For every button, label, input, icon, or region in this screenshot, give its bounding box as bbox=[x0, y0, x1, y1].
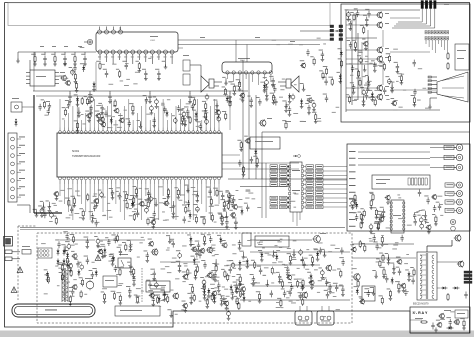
X-RAY parts bbox=[410, 310, 459, 332]
value label (band 2) bbox=[136, 295, 141, 298]
value label (band 14) bbox=[148, 244, 151, 247]
value label (band 2) bbox=[272, 261, 276, 264]
value label (band 13) bbox=[103, 214, 106, 217]
value label (band 1) bbox=[94, 193, 98, 196]
resistor R17 (AGC row) bbox=[71, 52, 77, 66]
wire bbox=[357, 33, 359, 100]
CRT heater wires bbox=[428, 98, 437, 109]
AV jack 6 bbox=[11, 178, 25, 182]
transistor V905 bbox=[376, 85, 389, 92]
value label (band 0) bbox=[186, 102, 191, 105]
wire bbox=[252, 285, 344, 287]
capacitor C171 (deflection area) bbox=[323, 278, 329, 287]
wire bbox=[390, 51, 430, 53]
capacitor C96 (sound trap) bbox=[306, 49, 309, 56]
CRT socket pin 8 bbox=[450, 219, 455, 224]
resistor R35 (below main IC) bbox=[79, 208, 85, 220]
solder pad bbox=[339, 29, 343, 32]
resistor R50 (below main IC) bbox=[133, 213, 135, 221]
wire bbox=[22, 106, 34, 108]
wire bbox=[382, 30, 384, 47]
value label (band 1) bbox=[119, 195, 122, 198]
board pin label 7 bbox=[349, 191, 356, 194]
resistor R52 (below main IC) bbox=[213, 188, 218, 197]
transistor V66 (south row) bbox=[223, 298, 229, 310]
pin wire bbox=[72, 184, 74, 220]
resistor R76 (CRT drive lower) bbox=[358, 212, 363, 221]
value label (band 2) bbox=[248, 264, 253, 267]
resistor R118 (deflection area) bbox=[271, 267, 273, 275]
value label (band 3) bbox=[350, 74, 353, 77]
capacitor C41 (above main IC) bbox=[98, 103, 104, 115]
wire bbox=[382, 62, 384, 85]
tuner pin 16 bbox=[170, 50, 174, 64]
resistor R71 (CRT drive left) bbox=[369, 199, 373, 210]
resistor R8 (CRT board right) bbox=[381, 62, 386, 71]
pin wire bbox=[111, 99, 113, 128]
value label (band 4) bbox=[416, 210, 419, 213]
resistor R4 (CRT board) bbox=[356, 78, 361, 87]
diode V69 (deflection area) bbox=[258, 250, 264, 262]
resistor R132 (primary gap) bbox=[116, 234, 118, 242]
resistor R92 (secondary side) bbox=[221, 269, 226, 278]
N301 pin 63 (bottom) bbox=[114, 177, 117, 184]
value label (band 1) bbox=[291, 200, 296, 203]
transistor V904 bbox=[376, 56, 389, 63]
N201 pin 21 (right) bbox=[301, 206, 303, 208]
capacitor C157 (deflection area) bbox=[339, 257, 345, 266]
CRT board inner border bbox=[355, 13, 357, 40]
pin wire bbox=[214, 99, 216, 128]
N301 pin 66 (bottom) bbox=[102, 177, 105, 184]
capacitor C148 (bottom row) bbox=[161, 290, 167, 302]
transistor V65 (bottom row) bbox=[148, 290, 154, 298]
value label (band 2) bbox=[251, 282, 256, 285]
resistor R38 (below main IC) bbox=[182, 205, 187, 214]
diode V74 (east output) bbox=[354, 286, 359, 295]
capacitor C121 (primary side) bbox=[127, 262, 133, 274]
capacitor C75 (below main IC) bbox=[206, 187, 212, 196]
diode V85 (secondary gap) bbox=[240, 294, 245, 303]
transistor V14 (above main IC) bbox=[215, 110, 221, 119]
N301 pin 24 (top) bbox=[157, 128, 160, 134]
pin wire bbox=[197, 184, 199, 196]
capacitor C19 (tuner pins) bbox=[103, 69, 108, 78]
resistor R57 (audio out) bbox=[231, 84, 237, 96]
svg-text:BSC25-N0379: BSC25-N0379 bbox=[413, 303, 429, 306]
link label row R2 bbox=[304, 169, 347, 172]
transistor V21 (below main IC) bbox=[138, 199, 144, 207]
N301 pin 19 (top) bbox=[136, 128, 139, 134]
value label (band 2) bbox=[129, 243, 133, 246]
capacitor C50 (above main IC) bbox=[197, 121, 203, 130]
diode V60 (secondary side) bbox=[230, 285, 233, 292]
wire to ground GND30 (south row) bbox=[167, 309, 173, 317]
degauss coil loop bbox=[12, 304, 95, 317]
value label (band 14) bbox=[327, 288, 331, 291]
value label (band 2) bbox=[209, 247, 213, 250]
resistor R18 (IF amp) bbox=[72, 72, 78, 84]
resistor R90 (secondary side) bbox=[194, 264, 199, 273]
diode V63 (secondary side) bbox=[244, 257, 250, 269]
socket pad row 1 bbox=[425, 31, 449, 34]
transistor V4 (IF amp) bbox=[64, 78, 70, 86]
pin wire bbox=[209, 184, 211, 220]
capacitor C65 (below main IC) bbox=[134, 209, 140, 218]
N301 pin 23 (top) bbox=[153, 128, 156, 134]
pin wire bbox=[85, 113, 87, 128]
diode V57 (secondary side) bbox=[155, 295, 160, 304]
electrolytic capacitor C40 (above main IC) bbox=[172, 115, 178, 124]
transistor V50 (secondary side) bbox=[206, 273, 212, 279]
link label row R5 bbox=[304, 183, 347, 186]
resistor R72 (CRT drive left) bbox=[373, 207, 379, 219]
value label (band 1) bbox=[188, 220, 191, 223]
resistor R22 (above main IC) bbox=[114, 99, 116, 107]
resistor R43 (below main IC) bbox=[71, 196, 77, 208]
pin wire bbox=[175, 184, 177, 220]
transistor V12 (above main IC) bbox=[100, 122, 106, 128]
AV jack strip XS101 bbox=[8, 133, 17, 202]
value label (band 2) bbox=[139, 241, 142, 244]
wire to ground GND7 (above main IC) bbox=[213, 100, 219, 112]
link label row R7 bbox=[304, 192, 347, 195]
capacitor C194 (below IC east gap) bbox=[244, 203, 250, 212]
wire bbox=[33, 52, 35, 91]
value label (band 12) bbox=[288, 43, 293, 46]
resistor R56 (audio out) bbox=[222, 87, 227, 96]
wire to ground GND4 (CRT board right) bbox=[388, 81, 394, 93]
N301 pin 5 (top) bbox=[76, 128, 79, 134]
transistor V87 (below IC east gap) bbox=[229, 210, 235, 218]
transistor V29 (video path) bbox=[244, 136, 250, 144]
capacitor C133 (secondary side) bbox=[150, 269, 156, 281]
value label (band 2) bbox=[305, 264, 309, 267]
N601 pin 6 bbox=[257, 71, 260, 85]
value label (band 1) bbox=[49, 220, 53, 223]
value label (band 2) bbox=[136, 287, 141, 290]
pin wire bbox=[89, 184, 91, 220]
capacitor C73 (below main IC) bbox=[68, 205, 74, 214]
N301 pin 60 (bottom) bbox=[127, 177, 130, 184]
value label (band 2) bbox=[135, 296, 139, 299]
N301 pin 40 (bottom) bbox=[213, 177, 216, 184]
capacitor C58 (below main IC) bbox=[194, 191, 200, 203]
N301 pin 9 (top) bbox=[93, 128, 96, 134]
value label (band 2) bbox=[296, 299, 299, 302]
N601 pin 8 bbox=[269, 71, 272, 82]
value label (band 5) bbox=[395, 241, 399, 244]
resistor R120 (east output) bbox=[354, 279, 359, 288]
transistor V72 (deflection area) bbox=[308, 278, 314, 290]
CRT socket pin 1 bbox=[444, 144, 463, 151]
pin wire bbox=[171, 184, 173, 212]
wire bbox=[390, 17, 420, 19]
electrolytic capacitor C78 (below main IC) bbox=[50, 212, 54, 219]
pin wire bbox=[201, 184, 203, 204]
value label (band 1) bbox=[129, 207, 132, 210]
value label (band 13) bbox=[145, 199, 148, 202]
capacitor C1 (CRT board) bbox=[350, 82, 356, 94]
diode V46 (primary side) bbox=[77, 269, 80, 276]
resistor R12 (tuner pins) bbox=[96, 61, 101, 70]
value label (band 14) bbox=[75, 243, 78, 246]
capacitor C150 (deflection area) bbox=[319, 247, 322, 254]
capacitor C160 (deflection area) bbox=[300, 260, 306, 269]
svg-text:U101: U101 bbox=[150, 40, 156, 42]
capacitor C162 (deflection area) bbox=[326, 282, 332, 294]
wire to ground GND6 (above main IC) bbox=[137, 120, 143, 128]
N601 pin 2 bbox=[232, 71, 235, 82]
pin wire bbox=[179, 99, 181, 128]
value label (band 14) bbox=[258, 243, 262, 246]
resistor R33 (below main IC) bbox=[175, 187, 181, 199]
resistor R109 (deflection area) bbox=[299, 297, 304, 306]
wire bbox=[346, 96, 377, 98]
wire bbox=[346, 63, 377, 65]
value label (band 0) bbox=[196, 125, 200, 128]
value label (band 14) bbox=[199, 300, 202, 303]
resistor R25 (above main IC) bbox=[189, 116, 191, 124]
horizontal video wire bbox=[262, 131, 470, 133]
N301 pin 21 (top) bbox=[144, 128, 147, 134]
pin wire bbox=[136, 184, 138, 212]
wire to ground GND33 (deflection area) bbox=[321, 249, 327, 257]
capacitor C118 (primary side) bbox=[69, 287, 75, 296]
N601 pin 3 bbox=[238, 71, 241, 85]
value label (band 5) bbox=[377, 246, 382, 249]
board pin label 8 bbox=[349, 198, 356, 201]
N301 pin 72 (bottom) bbox=[76, 177, 79, 184]
SMPS transformer T601 bbox=[58, 264, 68, 302]
value label (band 3) bbox=[418, 67, 422, 70]
board pin label 11 bbox=[349, 218, 356, 221]
value label (band 1) bbox=[147, 198, 152, 201]
value label (band 14) bbox=[118, 284, 122, 287]
value label (band 2) bbox=[181, 308, 184, 311]
diode V34 (sound trap) bbox=[337, 72, 343, 84]
value label (band 1) bbox=[248, 192, 253, 195]
value label (band 14) bbox=[215, 276, 220, 279]
pin wire bbox=[162, 99, 164, 128]
value label (band 5) bbox=[384, 243, 389, 246]
wire bbox=[222, 168, 299, 170]
value label (band 1) bbox=[195, 208, 199, 211]
capacitor C189 (secondary gap) bbox=[215, 281, 221, 293]
value label (band 2) bbox=[205, 275, 208, 278]
capacitor C17 (CRT board top-left) bbox=[354, 8, 360, 17]
resistor R16 (AGC row) bbox=[51, 52, 57, 66]
tuner pin 7 bbox=[111, 50, 115, 64]
resistor R112 (deflection area) bbox=[251, 260, 256, 269]
capacitor C29 (rail) bbox=[108, 91, 112, 104]
capacitor C42 (above main IC) bbox=[38, 104, 41, 111]
value label (band 12) bbox=[276, 43, 280, 46]
value label (band 1) bbox=[109, 216, 113, 219]
resistor R128 (east output) bbox=[361, 243, 366, 252]
capacitor C602 bbox=[291, 94, 295, 101]
pin wire bbox=[192, 106, 194, 128]
wire to ground GND28 (secondary side) bbox=[240, 251, 246, 259]
N301 pin 1 (top) bbox=[59, 128, 62, 134]
diode V25 (below main IC) bbox=[186, 210, 191, 219]
resistor R107 (south row) bbox=[206, 298, 210, 309]
resistor R116 (deflection area) bbox=[277, 298, 282, 307]
link label row R8 bbox=[304, 196, 347, 199]
value label (band 2) bbox=[151, 273, 155, 276]
resistor R5 (CRT board) bbox=[371, 97, 376, 106]
pin wire bbox=[119, 184, 121, 212]
value label (band 6) bbox=[279, 96, 283, 99]
N201 pin 26 (right) bbox=[301, 183, 303, 185]
N301 pin 11 (top) bbox=[102, 128, 105, 134]
link label row R4 bbox=[304, 178, 347, 181]
CRT socket pin 2 bbox=[444, 154, 463, 161]
value label (band 0) bbox=[44, 114, 48, 117]
capacitor C18 (CRT board top-left) bbox=[363, 15, 369, 27]
value label (band 12) bbox=[272, 39, 277, 42]
value label (band 2) bbox=[136, 301, 140, 304]
value label (band 2) bbox=[64, 291, 67, 294]
transistor V553 bbox=[457, 261, 464, 268]
N201 pin 3 (left) bbox=[288, 174, 290, 176]
value label (band 6) bbox=[239, 98, 242, 101]
N201 pin 28 (right) bbox=[301, 174, 303, 176]
transistor V431 bbox=[325, 265, 332, 272]
capacitor C15 (CRT board top-left) bbox=[365, 9, 371, 18]
value label (band 14) bbox=[235, 284, 239, 287]
value label (band 2) bbox=[318, 279, 322, 282]
signal arrow bbox=[335, 30, 339, 32]
resistor R123 (east output) bbox=[379, 295, 384, 304]
value label (band 15) bbox=[386, 98, 389, 101]
value label (band 2) bbox=[118, 244, 121, 247]
CRT socket pin 4 bbox=[445, 182, 463, 188]
value label (band 14) bbox=[175, 277, 179, 280]
low box bbox=[115, 306, 160, 316]
N201 pin 29 (right) bbox=[301, 170, 303, 172]
wire to ground GND18 (chroma parts) bbox=[282, 101, 288, 113]
value label (band 14) bbox=[272, 271, 276, 274]
capacitor C143 (secondary side) bbox=[150, 294, 156, 306]
value label (band 2) bbox=[291, 256, 296, 259]
transistor V201 bbox=[259, 118, 272, 127]
electrolytic capacitor C67 (below main IC) bbox=[98, 190, 104, 199]
electrolytic capacitor C43 (above main IC) bbox=[153, 97, 159, 109]
capacitor C3 (CRT board) bbox=[365, 93, 368, 100]
value label (band 2) bbox=[73, 278, 77, 281]
value label (band 1) bbox=[294, 193, 298, 196]
value label (band 4) bbox=[414, 211, 418, 214]
value label (band 11) bbox=[135, 71, 140, 74]
wire bbox=[346, 49, 377, 51]
wire bbox=[190, 65, 201, 76]
transistor V18 (below main IC) bbox=[232, 204, 238, 210]
capacitor C123 (primary side) bbox=[126, 286, 132, 298]
warning triangle 1 bbox=[17, 267, 23, 273]
value label (band 13) bbox=[200, 215, 205, 218]
electrolytic capacitor C149 (south row) bbox=[225, 308, 231, 320]
N301 pin 67 (bottom) bbox=[97, 177, 100, 184]
electrolytic capacitor C54 (above main IC) bbox=[88, 94, 94, 103]
value label (band 2) bbox=[232, 275, 235, 278]
diode V47 (primary side) bbox=[92, 268, 97, 277]
N301 pin 33 (top) bbox=[196, 128, 199, 134]
board pin label 3 bbox=[349, 164, 356, 167]
capacitor C13 (CRT board right) bbox=[394, 62, 400, 74]
capacitor C8 (CRT board) bbox=[347, 40, 353, 49]
pin wire bbox=[115, 184, 117, 204]
value label (band 0) bbox=[112, 115, 115, 118]
value label (band 15) bbox=[368, 96, 371, 99]
value label (band 14) bbox=[242, 260, 245, 263]
solder pad bbox=[330, 34, 334, 37]
N301 pin 4 (top) bbox=[71, 128, 74, 134]
capacitor C97 (CRT drive left) bbox=[353, 212, 359, 221]
value label (band 5) bbox=[369, 240, 373, 243]
capacitor C138 (secondary side) bbox=[233, 282, 239, 294]
diode V84 (primary gap) bbox=[110, 254, 115, 263]
value label (band 4) bbox=[398, 196, 401, 199]
value label (band 3) bbox=[417, 99, 421, 102]
transistor V432 HOT bbox=[312, 233, 326, 243]
diode V26 (audio out) bbox=[263, 83, 267, 93]
tuner pin 14 bbox=[157, 50, 161, 60]
tuner pin 11 bbox=[137, 50, 141, 60]
N301 pin 43 (bottom) bbox=[200, 177, 203, 184]
value label (band 9) bbox=[440, 318, 445, 321]
capacitor C21 (tuner pins) bbox=[142, 69, 148, 81]
horizontal bus bbox=[228, 178, 347, 180]
electrolytic capacitor C63 (below main IC) bbox=[38, 206, 44, 218]
wire to ground GND19 (sound trap) bbox=[300, 83, 306, 91]
value label (band 2) bbox=[102, 287, 107, 290]
value label (band 2) bbox=[58, 267, 62, 270]
pin wire bbox=[89, 106, 91, 128]
value label (band 14) bbox=[226, 295, 230, 298]
value label (band 14) bbox=[205, 299, 209, 302]
bus wire bbox=[255, 95, 257, 179]
capacitor C126 (primary side) bbox=[109, 254, 115, 266]
value label (band 9) bbox=[456, 321, 460, 324]
resistor R85 (primary side) bbox=[69, 295, 73, 306]
wire bbox=[352, 257, 416, 259]
resistor R24 (above main IC) bbox=[202, 111, 207, 120]
electrolytic capacitor C186 (secondary gap) bbox=[233, 285, 239, 294]
capacitor C68 (below main IC) bbox=[41, 210, 47, 219]
value label (band 2) bbox=[195, 266, 198, 269]
capacitor C24 (AGC row) bbox=[41, 52, 47, 66]
N301 pin 27 (top) bbox=[170, 128, 173, 134]
value label (band 2) bbox=[169, 289, 173, 292]
capacitor C48 (above main IC) bbox=[87, 103, 93, 115]
value label (band 2) bbox=[284, 266, 288, 269]
transistor V37 (CRT drive left) bbox=[385, 195, 391, 204]
capacitor C172 (east output) bbox=[373, 242, 379, 251]
capacitor C185 (secondary gap) bbox=[209, 272, 215, 281]
transistor V20 (below main IC) bbox=[150, 217, 156, 229]
tuner pin 15 bbox=[164, 50, 168, 62]
value label (band 2) bbox=[211, 277, 215, 280]
resistor R55 (audio out) bbox=[236, 79, 242, 91]
capacitor C72 (below main IC) bbox=[109, 188, 115, 200]
tuner top pin 4 bbox=[119, 27, 123, 35]
pin wire bbox=[81, 120, 83, 128]
transistor V77 (east output) bbox=[350, 244, 356, 252]
value label (band 3) bbox=[397, 72, 402, 75]
relay box bbox=[255, 236, 289, 247]
value label (band 2) bbox=[280, 238, 283, 241]
